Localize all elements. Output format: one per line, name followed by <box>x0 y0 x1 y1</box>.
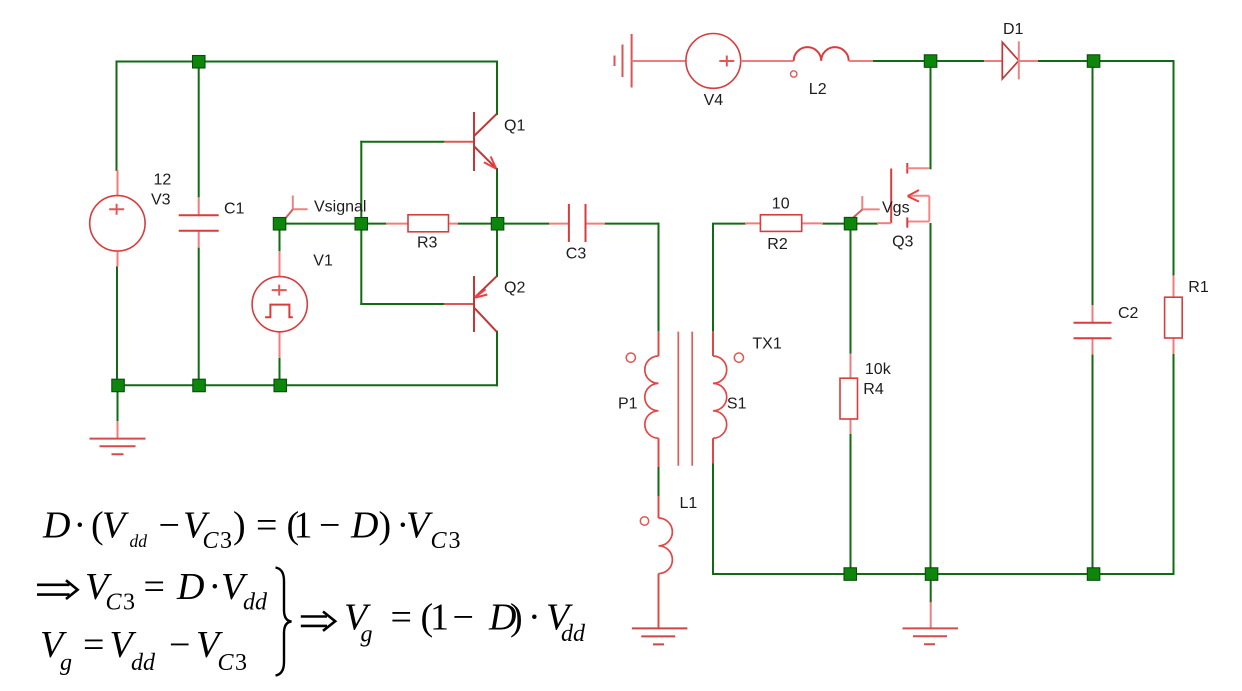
svg-text:TX1: TX1 <box>752 336 781 353</box>
node top out <box>1087 55 1100 68</box>
wire V1 top <box>279 224 281 251</box>
phase dot S1 <box>734 353 743 362</box>
svg-text:Q3: Q3 <box>892 233 913 250</box>
pin Vsignal <box>286 196 308 219</box>
node gate <box>844 217 857 230</box>
node emitter <box>491 218 504 231</box>
pin Vgs <box>854 196 880 217</box>
transistor Q2 <box>444 276 497 332</box>
wire primary to L1 link <box>658 467 660 496</box>
wire mid ground stem <box>930 574 932 602</box>
wire secondary top to R2 <box>713 224 745 331</box>
mosfet Q3 <box>877 163 929 228</box>
wire C1 top branch <box>198 62 200 198</box>
equation line 3 <box>40 624 247 676</box>
wire D1 to out node <box>1038 60 1094 62</box>
svg-text:): ) <box>379 505 392 547</box>
capacitor C2 <box>1074 305 1112 355</box>
svg-text:=: = <box>144 566 165 608</box>
voltage source V3 <box>90 170 145 267</box>
node rail right 2 <box>925 568 938 581</box>
svg-text:L1: L1 <box>680 495 698 512</box>
wire bottom rail right <box>713 573 1174 575</box>
ground under L1 <box>632 628 688 644</box>
capacitor C1 <box>179 197 219 248</box>
wire out node to top right corner <box>1094 60 1174 62</box>
svg-text:=: = <box>391 597 412 639</box>
equation line 2 <box>85 566 268 616</box>
svg-text:·: · <box>528 597 541 639</box>
wire R4 top <box>850 224 852 354</box>
svg-text:Q2: Q2 <box>504 280 525 297</box>
wire Q3 drain <box>930 61 932 168</box>
wire C3 to primary <box>605 223 659 225</box>
svg-text:V: V <box>102 505 129 547</box>
node Vsignal <box>273 218 286 231</box>
svg-text:−: − <box>159 505 180 547</box>
svg-text:1: 1 <box>294 505 313 547</box>
wire drain node to D1 <box>931 60 985 62</box>
wire Vsignal horizontal <box>280 223 387 225</box>
svg-text:C: C <box>203 528 220 554</box>
inductor L1 <box>659 496 673 628</box>
wire primary top drop <box>658 224 660 331</box>
wire Q2 emitter rise <box>496 224 498 276</box>
phase dot P1 <box>626 353 635 362</box>
inductor L2 <box>791 47 874 77</box>
transformer core <box>678 332 692 466</box>
wire Q2 collector drop <box>496 332 498 386</box>
ground V4 (rotated) <box>615 34 686 88</box>
diode D1 <box>984 41 1038 79</box>
svg-text:C1: C1 <box>224 201 245 218</box>
svg-text:S1: S1 <box>727 396 747 413</box>
svg-text:R4: R4 <box>863 381 884 398</box>
resistor R2 <box>745 215 823 232</box>
wire node to C3 <box>498 223 550 225</box>
node top drain <box>924 55 937 68</box>
resistor R4 <box>840 354 858 435</box>
node rail left 3 <box>274 379 287 392</box>
phase dot L1 <box>640 517 648 525</box>
wire L2 to drain node <box>873 60 931 62</box>
node rail left 2 <box>193 379 206 392</box>
svg-text:=: = <box>83 624 104 666</box>
capacitor C3 <box>549 204 605 242</box>
wire ground stem left <box>117 385 119 421</box>
svg-text:10: 10 <box>772 196 790 213</box>
svg-text:C: C <box>431 528 448 554</box>
equation line 4 <box>344 597 586 648</box>
svg-text:=: = <box>256 505 277 547</box>
svg-text:C: C <box>106 590 123 616</box>
implies arrow line 4 <box>301 612 335 631</box>
wire R3 right to node <box>458 223 498 225</box>
svg-text:3: 3 <box>123 590 135 616</box>
svg-text:V3: V3 <box>151 192 171 209</box>
svg-text:dd: dd <box>243 590 268 616</box>
wire Q1 collector drop <box>496 62 498 115</box>
svg-text:C: C <box>218 650 235 676</box>
svg-text:dd: dd <box>130 531 148 551</box>
implies arrow line 2 <box>37 580 78 599</box>
svg-text:): ) <box>233 505 246 547</box>
svg-text:D: D <box>176 566 204 608</box>
svg-text:−: − <box>169 624 190 666</box>
wire V1 bottom <box>279 358 281 385</box>
ground mid (under Q3 source) <box>903 602 959 644</box>
svg-text:−: − <box>319 505 340 547</box>
svg-text:V1: V1 <box>313 252 333 269</box>
svg-text:R2: R2 <box>767 236 788 253</box>
wire Q1 base <box>361 141 444 143</box>
resistor R1 <box>1165 275 1183 354</box>
ground left <box>90 421 146 454</box>
svg-text:V4: V4 <box>704 92 724 109</box>
svg-text:12: 12 <box>154 172 172 189</box>
wire Q1 emitter drop <box>496 169 498 224</box>
svg-text:3: 3 <box>235 650 247 676</box>
svg-text:−: − <box>453 597 474 639</box>
equation line 1 <box>42 505 461 555</box>
brace <box>276 568 292 676</box>
wire secondary bottom drop <box>712 464 714 575</box>
node base <box>355 218 368 231</box>
svg-text:dd: dd <box>131 650 156 676</box>
resistor R3 <box>386 215 458 232</box>
voltage source V4 <box>686 34 794 89</box>
svg-text:D: D <box>42 505 70 547</box>
node top C1 <box>193 56 206 69</box>
svg-text:Vgs: Vgs <box>882 200 910 217</box>
svg-text:Q1: Q1 <box>504 118 525 135</box>
svg-text:·: · <box>209 566 222 608</box>
svg-text:g: g <box>60 650 72 676</box>
svg-text:R3: R3 <box>417 235 438 252</box>
svg-text:Vsignal: Vsignal <box>314 198 366 215</box>
wire V3 top vertical <box>116 62 118 171</box>
wire R2 right to gate node <box>823 223 845 225</box>
node rail right 3 <box>1087 568 1100 581</box>
wire gate node to gate <box>856 223 877 225</box>
wire R1 top drop <box>1173 61 1175 275</box>
transistor Q1 <box>444 112 497 171</box>
svg-text:1: 1 <box>430 597 449 639</box>
wire C1 bottom branch <box>198 248 200 385</box>
node rail right 1 <box>844 568 857 581</box>
svg-text:R1: R1 <box>1188 279 1209 296</box>
wire R1 bottom <box>1173 354 1175 574</box>
svg-text:): ) <box>510 597 523 639</box>
transformer TX1 primary P1 <box>645 331 659 467</box>
svg-text:C3: C3 <box>566 245 587 262</box>
svg-text:L2: L2 <box>809 81 827 98</box>
svg-text:C2: C2 <box>1118 305 1139 322</box>
wire Q2 base <box>361 303 444 305</box>
wire V3 bottom <box>116 267 118 385</box>
svg-text:10k: 10k <box>865 361 892 378</box>
svg-text:g: g <box>361 622 373 648</box>
wire R4 bottom <box>850 434 852 574</box>
svg-text:D: D <box>350 505 378 547</box>
svg-text:D1: D1 <box>1003 21 1024 38</box>
wire C2 top <box>1093 61 1094 305</box>
svg-text:P1: P1 <box>618 396 638 413</box>
wire base vertical <box>360 142 362 304</box>
wire top rail <box>117 61 498 63</box>
wire Q3 source <box>930 224 932 574</box>
node rail left 1 <box>112 379 125 392</box>
wire C2 bottom <box>1092 355 1094 574</box>
svg-text:V: V <box>406 505 433 547</box>
svg-text:dd: dd <box>561 621 586 647</box>
wire bottom rail left <box>117 384 498 386</box>
svg-text:·: · <box>74 505 87 547</box>
transformer TX1 secondary S1 <box>713 331 727 464</box>
pulse source V1 <box>252 251 307 358</box>
svg-text:3: 3 <box>220 528 232 554</box>
svg-text:3: 3 <box>449 528 461 554</box>
